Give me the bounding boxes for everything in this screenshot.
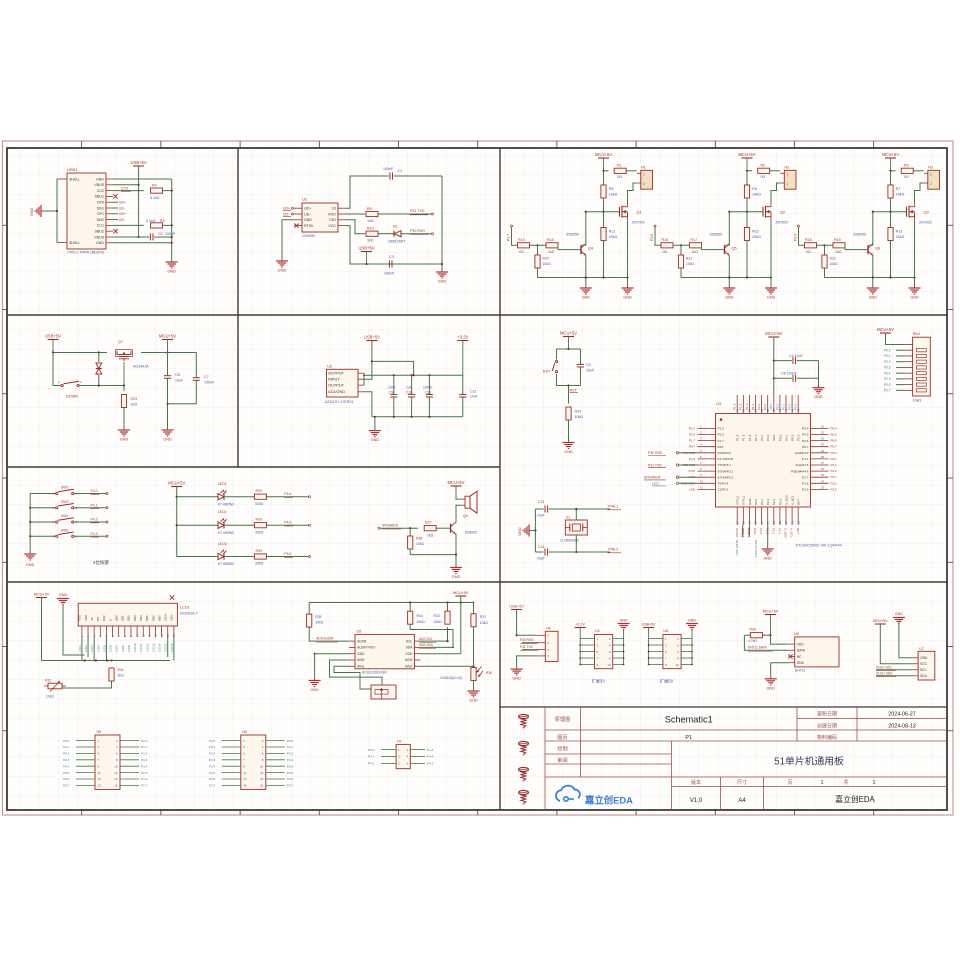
transistor Q3 2N7002 [906, 207, 908, 217]
net label P30_RXD [402, 233, 432, 235]
svg-text:LCD12: LCD12 [145, 643, 149, 652]
svg-text:MCU+5V: MCU+5V [159, 333, 176, 338]
svg-text:5.1kΩ: 5.1kΩ [150, 196, 160, 200]
svg-text:页: 页 [787, 780, 792, 786]
svg-text:尺寸: 尺寸 [737, 779, 747, 786]
screw icon 3 [519, 767, 529, 771]
svg-text:P2.2: P2.2 [209, 752, 216, 756]
svg-text:16: 16 [260, 784, 264, 788]
svg-text:RST: RST [543, 370, 551, 374]
header U8 [663, 635, 681, 669]
vdd wire dht [771, 635, 789, 644]
svg-text:A4: A4 [738, 798, 746, 804]
power flag MCU+5V out [162, 339, 173, 341]
pin SDA u7 [911, 675, 918, 677]
svg-text:P1.0: P1.0 [141, 739, 148, 743]
svg-text:DB5: DB5 [145, 615, 149, 621]
gate wire Q7 [123, 362, 125, 386]
svg-text:Q3: Q3 [924, 211, 929, 215]
svg-text:P1.0: P1.0 [760, 434, 764, 441]
power flag USB+5V h4 [511, 609, 522, 611]
svg-text:P4.1: P4.1 [831, 457, 838, 461]
pin row 4 [222, 759, 241, 761]
svg-text:P1.7: P1.7 [689, 439, 696, 443]
U3 top pins [736, 395, 738, 414]
resistor R2 [758, 168, 770, 173]
ground driver right [622, 287, 634, 289]
svg-text:2kΩ: 2kΩ [118, 674, 125, 678]
svg-text:1kΩ: 1kΩ [548, 250, 555, 254]
collector wire [869, 212, 873, 245]
xtal left rail [534, 509, 536, 552]
svg-text:H2: H2 [785, 165, 790, 169]
adj/gnd wire [364, 392, 372, 417]
rst bottom wire [557, 385, 581, 387]
resistor R1 [614, 168, 626, 173]
svg-text:Q2: Q2 [780, 211, 785, 215]
svg-text:INT0#/P3.2: INT0#/P3.2 [718, 469, 734, 473]
wire header pin2 to drain [771, 183, 780, 204]
svg-text:P1.3: P1.3 [739, 403, 743, 410]
svg-text:VCC: VCC [920, 662, 928, 666]
svg-text:GND: GND [167, 270, 176, 274]
pin row 2 [222, 746, 241, 748]
svg-text:DHT11 DATA: DHT11 DATA [748, 646, 768, 650]
H7 pin row 1 [381, 749, 396, 751]
svg-text:SS8050: SS8050 [710, 233, 723, 237]
svg-text:R6: R6 [752, 187, 757, 191]
power flag MCU+5V driver H3 [885, 157, 896, 159]
svg-text:10: 10 [114, 764, 118, 768]
capacitor C8 [774, 377, 792, 379]
svg-text:STC89C52RC-40I-LQFP44: STC89C52RC-40I-LQFP44 [796, 544, 842, 548]
svg-text:10uF: 10uF [175, 379, 184, 383]
svg-text:R2: R2 [761, 163, 766, 167]
svg-text:R33: R33 [434, 614, 440, 618]
svg-text:P0.6: P0.6 [63, 777, 70, 781]
U4 rails [579, 628, 581, 665]
svg-text:C13: C13 [538, 500, 544, 504]
svg-text:Q4: Q4 [588, 247, 593, 251]
svg-text:P2.5: P2.5 [802, 488, 809, 492]
svg-text:U1: U1 [302, 197, 308, 202]
svg-text:P0.5: P0.5 [831, 433, 838, 437]
svg-text:1kΩ: 1kΩ [367, 239, 374, 243]
svg-text:P0.3: P0.3 [884, 366, 891, 370]
svg-text:29: 29 [821, 449, 825, 453]
svg-text:GND: GND [582, 296, 591, 300]
capacitor C2 [113, 236, 149, 238]
svg-text:P1.2: P1.2 [745, 403, 749, 410]
H7 pin row 2 [381, 756, 396, 758]
rail with R pullup/pulldown [603, 171, 605, 185]
svg-text:LCD14: LCD14 [158, 643, 162, 652]
base wire [558, 249, 581, 251]
capacitor C6 [167, 353, 169, 376]
screw icon 4 [519, 790, 529, 794]
IC U7 [918, 651, 935, 680]
svg-text:2N7002: 2N7002 [919, 221, 932, 225]
svg-text:DOWN: DOWN [66, 395, 78, 399]
svg-text:P0.5: P0.5 [802, 433, 809, 437]
ads top rail [309, 602, 473, 604]
resistor R18 [805, 243, 817, 248]
svg-text:P3.5: P3.5 [287, 771, 294, 775]
resistor R20 pulldown [537, 245, 539, 255]
svg-text:MCU+5V: MCU+5V [595, 152, 612, 157]
power flag MCU+5V leds [171, 486, 182, 488]
svg-text:UD-: UD- [119, 206, 125, 210]
LCD1 module [78, 603, 177, 626]
ground left of USB1 [40, 205, 42, 217]
svg-text:P2.7: P2.7 [831, 475, 838, 479]
svg-text:R16: R16 [662, 238, 669, 242]
pin NC dht [789, 656, 795, 658]
svg-text:14: 14 [114, 777, 118, 781]
resistor R11 [601, 228, 606, 241]
svg-text:P1.5: P1.5 [718, 427, 725, 431]
svg-text:100nF: 100nF [384, 272, 395, 276]
divider horizontal y=315 [7, 314, 947, 316]
svg-text:P0.7: P0.7 [63, 784, 70, 788]
svg-text:28: 28 [821, 455, 825, 459]
svg-text:12: 12 [114, 771, 118, 775]
right rail ch340 [441, 176, 443, 272]
svg-text:ADDR: ADDR [357, 639, 367, 643]
svg-text:XTAL2: XTAL2 [735, 528, 739, 537]
svg-text:P1.4: P1.4 [141, 764, 148, 768]
svg-text:P2.2: P2.2 [766, 498, 770, 505]
svg-text:AIN3: AIN3 [405, 658, 412, 662]
wire RN1 row 8 [896, 384, 905, 386]
header H4 [545, 631, 558, 661]
U8 pin row 3 [649, 651, 663, 653]
wire U1 gnd [282, 220, 294, 261]
svg-text:R11: R11 [609, 230, 615, 234]
svg-text:10kΩ: 10kΩ [434, 620, 442, 624]
svg-text:C5: C5 [586, 363, 591, 367]
collector emitter wires [455, 517, 457, 523]
rail with R pullup/pulldown [890, 171, 892, 185]
ground dht [765, 678, 777, 680]
svg-text:19: 19 [778, 520, 782, 524]
power flag +3.2V [575, 627, 586, 629]
resistor R15 [546, 243, 558, 248]
svg-text:23: 23 [821, 485, 825, 489]
svg-text:R32: R32 [45, 679, 51, 683]
svg-text:VDD: VDD [405, 652, 413, 656]
svg-text:24: 24 [821, 479, 825, 483]
svg-text:10kΩ: 10kΩ [416, 542, 424, 546]
svg-text:V3: V3 [332, 207, 336, 211]
svg-text:INT1#/P3.3: INT1#/P3.3 [718, 475, 734, 479]
svg-text:P1.3: P1.3 [141, 758, 148, 762]
svg-text:13: 13 [243, 777, 247, 781]
power flag USB+5V ch340 [361, 251, 372, 253]
svg-text:Q5: Q5 [732, 247, 737, 251]
U4 pin row 2 [580, 644, 594, 646]
svg-text:P2.5: P2.5 [209, 771, 216, 775]
svg-text:X1: X1 [566, 516, 570, 520]
svg-text:SBU1: SBU1 [95, 195, 104, 199]
svg-text:P0.3: P0.3 [63, 758, 70, 762]
svg-text:P31 TXD: P31 TXD [648, 463, 662, 467]
svg-text:EA#/P4.6: EA#/P4.6 [795, 451, 808, 455]
svg-text:OUTPUT: OUTPUT [328, 371, 345, 376]
svg-text:DATA: DATA [797, 649, 806, 653]
svg-text:XTAL2: XTAL2 [608, 547, 619, 551]
svg-text:USB+5V: USB+5V [45, 333, 61, 338]
right rail to ground [171, 179, 173, 262]
svg-text:SPEAKER: SPEAKER [382, 524, 399, 528]
transistor Q4 SS8050 [580, 245, 582, 254]
wire top node [604, 170, 609, 172]
U3 gnd pin wire [767, 525, 769, 549]
net label OLED SDA [876, 675, 911, 677]
RN1 pin 1 [905, 344, 913, 346]
svg-text:P2.3: P2.3 [771, 528, 775, 535]
svg-text:GND: GND [96, 241, 104, 245]
svg-text:XTAL 1: XTAL 1 [747, 528, 751, 538]
svg-text:AZ1117H-3.3TRG1: AZ1117H-3.3TRG1 [325, 400, 354, 404]
screw icon 1 [519, 714, 529, 718]
svg-text:10kΩ: 10kΩ [609, 193, 618, 197]
ground U3 bottom [762, 548, 774, 550]
svg-text:USB+5V: USB+5V [364, 334, 380, 339]
wire RN1 row 3 [896, 355, 905, 357]
svg-text:H1: H1 [641, 165, 646, 169]
svg-text:10kΩ: 10kΩ [752, 193, 761, 197]
svg-text:VSS: VSS [78, 615, 82, 621]
nc cross SBU1 [113, 194, 117, 198]
wire RN1 row 4 [896, 361, 905, 363]
resistor R12 [744, 228, 749, 241]
svg-text:DHT: DHT [797, 499, 801, 505]
gate wire [586, 211, 620, 213]
svg-text:P2.5: P2.5 [831, 487, 838, 491]
resistor R5 [366, 211, 378, 216]
svg-text:LCD3: LCD3 [90, 645, 94, 652]
bottom wire [538, 277, 628, 279]
capacitor C10 [411, 375, 413, 394]
svg-text:1kΩ: 1kΩ [692, 250, 699, 254]
svg-text:R5: R5 [367, 207, 372, 211]
power flag MCU+5V U3 [768, 336, 779, 338]
svg-text:C1: C1 [398, 169, 403, 173]
svg-text:GND: GND [59, 593, 68, 597]
svg-text:U7: U7 [919, 647, 924, 651]
svg-text:CC2: CC2 [97, 189, 104, 193]
svg-text:P2.6: P2.6 [209, 777, 216, 781]
header H2 [784, 170, 796, 189]
IC U5 ADS1115 [355, 634, 414, 668]
svg-text:12: 12 [260, 771, 264, 775]
svg-text:R37: R37 [480, 615, 486, 619]
H4 pin 4 [536, 655, 545, 657]
ain2 wire [420, 665, 473, 667]
svg-text:1kΩ: 1kΩ [367, 219, 374, 223]
svg-text:U2: U2 [327, 363, 333, 368]
svg-text:P2.1: P2.1 [209, 745, 216, 749]
svg-text:P4.3/INT2#: P4.3/INT2# [718, 457, 734, 461]
svg-text:20pF: 20pF [537, 557, 545, 561]
svg-text:R15: R15 [547, 238, 554, 242]
svg-text:GND: GND [814, 395, 823, 399]
svg-text:18: 18 [772, 520, 776, 524]
svg-text:DP0: DP0 [97, 201, 104, 205]
capacitor C9 [393, 375, 395, 394]
wire gnd row2 [113, 242, 172, 244]
RN1 pin 6 [905, 372, 913, 374]
rst top wire [557, 348, 581, 350]
svg-text:GND: GND [30, 208, 34, 217]
svg-text:GND: GND [512, 677, 521, 681]
pin VDD [414, 653, 420, 655]
ads +5v drop [460, 596, 462, 654]
wire header pin2 to drain [628, 183, 637, 204]
svg-text:P0.7: P0.7 [831, 445, 838, 449]
svg-text:VDD: VDD [797, 642, 805, 646]
capacitor C12 [462, 375, 464, 394]
svg-text:0Ω: 0Ω [761, 175, 766, 179]
nc cross dht [788, 654, 792, 658]
svg-text:VBUS: VBUS [94, 235, 104, 239]
svg-text:P1: P1 [685, 735, 692, 741]
svg-text:P3.2: P3.2 [287, 752, 294, 756]
svg-text:27: 27 [821, 461, 825, 465]
svg-text:GND: GND [623, 296, 632, 300]
pin SHELL bottom [57, 242, 67, 244]
power flag MCU+5V RN1 [880, 332, 891, 334]
pin DATA dht [789, 649, 795, 651]
led LED1 [177, 496, 218, 498]
svg-text:A_SDA: A_SDA [784, 528, 788, 538]
svg-text:UD+: UD+ [119, 201, 126, 205]
svg-text:0Ω: 0Ω [617, 175, 622, 179]
svg-text:R17: R17 [691, 238, 698, 242]
h4 gnd wire [517, 656, 536, 669]
svg-text:KT-0805W: KT-0805W [218, 562, 235, 566]
svg-text:MCU+5V: MCU+5V [882, 152, 899, 157]
RN1 pin 3 [905, 355, 913, 357]
wire RN1 row 5 [896, 366, 905, 368]
svg-text:P0.2: P0.2 [791, 434, 795, 441]
resistor R3 [901, 168, 913, 173]
IC U3 STC89C52 [716, 414, 811, 508]
gnd wire dht [771, 663, 789, 679]
speaker wires [456, 486, 461, 499]
svg-text:MCU+5V: MCU+5V [447, 480, 464, 485]
svg-text:SDA: SDA [920, 674, 928, 678]
svg-text:USB1: USB1 [67, 167, 78, 172]
svg-text:P0.1: P0.1 [884, 354, 891, 358]
svg-text:R5: R5 [609, 187, 614, 191]
wire vbus row [113, 184, 139, 186]
led LED3 [177, 556, 218, 558]
net label P4.2 [74, 521, 106, 523]
svg-text:2N7002: 2N7002 [776, 221, 789, 225]
svg-text:U5: U5 [357, 629, 362, 633]
svg-text:CH340N: CH340N [302, 234, 316, 238]
svg-text:R22: R22 [830, 257, 836, 261]
svg-text:LCD1: LCD1 [78, 645, 82, 652]
net label ADS_SDA [420, 646, 453, 648]
svg-text:12: 12 [735, 520, 739, 524]
wire RN1 row 7 [896, 378, 905, 380]
ground GND ch340 right [436, 271, 448, 273]
svg-text:T0/P3.4: T0/P3.4 [718, 482, 729, 486]
svg-text:10kΩ: 10kΩ [480, 621, 488, 625]
svg-text:共: 共 [843, 779, 848, 786]
svg-text:10kΩ: 10kΩ [46, 695, 54, 699]
wire RXD to R5 [346, 213, 365, 215]
svg-text:更新日期: 更新日期 [817, 711, 837, 718]
speaker LS1 [465, 496, 470, 508]
svg-text:P0.2: P0.2 [884, 360, 891, 364]
U4 pin row 1 [580, 638, 594, 640]
resistor R24 [568, 386, 570, 404]
svg-text:GND: GND [748, 498, 752, 506]
svg-text:P1.4: P1.4 [733, 403, 737, 410]
svg-text:OLED SCL: OLED SCL [876, 665, 892, 669]
svg-text:SBU2: SBU2 [95, 230, 104, 234]
svg-text:C10: C10 [406, 390, 412, 394]
svg-text:CC2: CC2 [121, 186, 128, 190]
svg-text:VDD: VDD [84, 615, 88, 621]
svg-text:VCC: VCC [328, 224, 336, 228]
svg-text:P0.2: P0.2 [788, 403, 792, 410]
wire top node [747, 170, 752, 172]
base wire [845, 249, 868, 251]
svg-text:P1.5: P1.5 [689, 426, 696, 430]
svg-text:P1.7: P1.7 [718, 439, 725, 443]
svg-text:UD-: UD- [304, 212, 311, 216]
svg-text:31: 31 [821, 437, 825, 441]
svg-text:0Ω: 0Ω [663, 250, 668, 254]
svg-text:P0.1: P0.1 [784, 434, 788, 441]
H4 pin 2 [536, 642, 545, 644]
u7 vcc wire [880, 624, 911, 664]
svg-text:A_SCL: A_SCL [791, 495, 795, 505]
resistor R35 [308, 603, 310, 615]
svg-text:P4.4: P4.4 [284, 492, 291, 496]
capacitor C14 [535, 551, 543, 553]
u7 gnd wire [899, 623, 911, 658]
ground driver left [723, 287, 735, 289]
svg-text:P0.1: P0.1 [63, 745, 70, 749]
ground switch2 [162, 429, 174, 431]
svg-text:SS8050: SS8050 [465, 531, 477, 535]
resistor R6 [744, 185, 749, 198]
nc RTS# [294, 223, 298, 227]
svg-text:P30 RXD: P30 RXD [648, 451, 663, 455]
LCD1 pins [81, 626, 83, 637]
svg-text:ALERT-RDY: ALERT-RDY [357, 646, 376, 650]
wire caps to gnd [818, 361, 820, 388]
svg-text:RN1: RN1 [913, 332, 921, 336]
ain1 wire [334, 666, 371, 689]
net label P4.4 led [266, 496, 308, 498]
svg-text:C6: C6 [175, 373, 180, 377]
svg-text:P2.0: P2.0 [754, 498, 758, 505]
resistor R22 pulldown [824, 245, 826, 255]
svg-text:14: 14 [748, 520, 752, 524]
svg-text:扩展5V: 扩展5V [660, 678, 674, 685]
svg-text:AIN0: AIN0 [357, 658, 364, 662]
svg-text:2024-08-13: 2024-08-13 [888, 724, 916, 730]
resistor R14 [518, 243, 530, 248]
bottom wire switch [168, 403, 197, 405]
